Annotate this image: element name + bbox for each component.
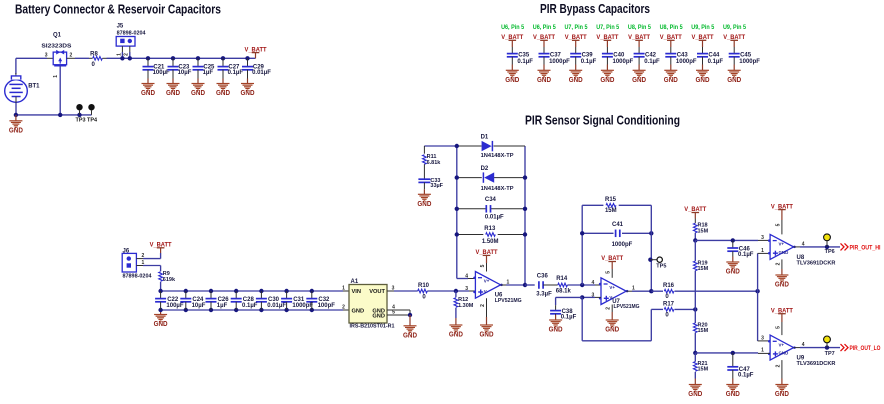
node TP7 junction — [825, 345, 829, 349]
svg-text:1000pF: 1000pF — [549, 59, 570, 65]
wire battery top riser — [15, 58, 17, 74]
svg-text:GND: GND — [664, 77, 678, 84]
svg-text:C44: C44 — [708, 53, 720, 59]
wire C36 to R14 — [543, 284, 558, 286]
svg-text:LPV521MG: LPV521MG — [614, 304, 640, 310]
svg-text:PIR_OUT_LO: PIR_OUT_LO — [850, 345, 881, 352]
power port V_BATT for C42 — [635, 39, 643, 41]
wire A1 pins 4-5 to ground — [409, 310, 411, 315]
svg-text:1.50M: 1.50M — [482, 239, 499, 245]
svg-text:R15: R15 — [605, 197, 617, 203]
svg-text:V_BATT: V_BATT — [150, 242, 172, 249]
capacitor C30 — [259, 289, 263, 293]
svg-text:BT1: BT1 — [28, 83, 40, 89]
ground under battery — [15, 115, 17, 121]
wire feedback top rail — [424, 145, 481, 147]
op-amp U7 LPV521MG — [601, 278, 626, 305]
power port V_BATT (U6) — [483, 254, 491, 256]
svg-text:V+: V+ — [779, 242, 785, 247]
pin 3 of A1 — [387, 290, 394, 292]
wire top capacitor bus — [161, 290, 343, 292]
wire R21 to ground — [694, 372, 696, 379]
svg-text:4: 4 — [592, 280, 595, 286]
capacitor C43 — [665, 53, 676, 55]
power port V_BATT for C43 — [667, 39, 675, 41]
svg-text:87898-0204: 87898-0204 — [123, 274, 153, 280]
svg-text:GND: GND — [696, 77, 710, 84]
capacitor C25 — [196, 56, 200, 60]
wire lower tap to U9 pin 1 — [695, 352, 758, 354]
wire R13 row — [457, 234, 484, 236]
svg-text:87898-0204: 87898-0204 — [117, 30, 147, 36]
capacitor C28 — [234, 289, 238, 293]
svg-text:V_BATT: V_BATT — [501, 34, 523, 41]
wire feedback ladder left vertical — [456, 146, 458, 279]
wire U7 to ground — [611, 305, 613, 313]
ground under A1 — [409, 315, 411, 326]
capacitor C47 0.1uF — [732, 353, 734, 367]
svg-text:2: 2 — [606, 307, 612, 310]
ground under C35 — [511, 65, 513, 71]
ground under C21 — [147, 79, 149, 84]
svg-text:V_BATT: V_BATT — [245, 46, 267, 53]
svg-text:LPV521MG: LPV521MG — [495, 298, 522, 304]
wire R15 row — [582, 204, 603, 206]
capacitor C40 — [602, 53, 613, 55]
svg-text:R10: R10 — [418, 283, 430, 289]
svg-text:U8, Pin 5: U8, Pin 5 — [660, 25, 684, 31]
svg-text:2: 2 — [480, 304, 486, 307]
wire C41 row — [582, 232, 613, 234]
ground under C37 — [543, 65, 545, 71]
svg-text:GND: GND — [191, 90, 205, 97]
svg-text:5: 5 — [480, 264, 486, 267]
wire U9 to ground — [781, 360, 783, 378]
test point TP3 — [79, 110, 81, 115]
svg-text:U6, Pin 5: U6, Pin 5 — [501, 25, 525, 31]
op-amp U6 LPV521MG — [475, 272, 500, 299]
power port V_BATT for C39 — [572, 39, 580, 41]
node D2 right — [523, 175, 527, 179]
ground under C44 — [702, 65, 704, 71]
svg-text:V_BATT: V_BATT — [692, 34, 714, 41]
svg-text:GND: GND — [726, 391, 740, 398]
ground under C38 — [555, 315, 557, 320]
node upper threshold tap — [693, 238, 697, 242]
comparator U8 TLV3691DCKR — [770, 234, 794, 259]
svg-text:VIN: VIN — [352, 289, 361, 295]
wire U7 output to R16 — [651, 290, 663, 292]
svg-text:0.1µF: 0.1µF — [561, 315, 577, 321]
ground under U8 — [781, 269, 783, 275]
ground under R21 — [694, 379, 696, 385]
wire U6 to ground — [486, 298, 488, 317]
node TP3 junction — [77, 113, 81, 117]
svg-text:SI2323DS: SI2323DS — [41, 43, 71, 49]
node battery bottom junction — [14, 113, 18, 117]
ground under C43 — [670, 65, 672, 71]
ground under C39 — [575, 65, 577, 71]
wire upper tap to U8 pin 3 — [695, 239, 758, 241]
capacitor C32 — [310, 289, 314, 293]
svg-text:1000pF: 1000pF — [739, 59, 760, 65]
power port V_BATT (U8) — [778, 209, 786, 211]
svg-text:0.1µF: 0.1µF — [738, 373, 754, 379]
svg-text:GND: GND — [605, 327, 619, 334]
svg-text:1: 1 — [761, 248, 764, 254]
svg-text:GND: GND — [449, 332, 463, 339]
svg-text:5: 5 — [775, 326, 781, 329]
node U7 output junction — [649, 289, 653, 293]
svg-text:V+: V+ — [609, 285, 615, 290]
svg-text:V_BATT: V_BATT — [660, 34, 682, 41]
wire D2 row — [457, 177, 482, 179]
wire R8 to V_BATT bus — [102, 57, 106, 59]
ground under C40 — [606, 65, 608, 71]
wire C34 row — [457, 208, 487, 210]
wire U9 output — [794, 347, 800, 349]
svg-text:GND: GND — [9, 127, 23, 134]
svg-text:GND: GND — [569, 77, 583, 84]
wire J5 pin1 stub — [121, 46, 123, 52]
svg-text:1: 1 — [53, 75, 59, 78]
wire A1 VOUT to R10 — [394, 290, 418, 292]
svg-text:5: 5 — [392, 309, 395, 315]
capacitor C21 — [146, 56, 150, 60]
test point TP6 — [826, 241, 828, 247]
svg-text:TP5: TP5 — [656, 263, 666, 269]
svg-text:0.1µF: 0.1µF — [228, 70, 244, 76]
svg-text:C42: C42 — [645, 53, 657, 59]
capacitor C38 0.1uF — [555, 305, 557, 310]
svg-text:C35: C35 — [518, 53, 530, 59]
wire R10 to U6 pin 3 — [427, 290, 469, 292]
svg-text:V_BATT: V_BATT — [476, 249, 498, 256]
capacitor C27 — [221, 56, 225, 60]
svg-text:1: 1 — [116, 53, 122, 56]
svg-text:100pF: 100pF — [318, 303, 336, 309]
svg-text:GND: GND — [417, 201, 431, 208]
svg-text:GND: GND — [688, 391, 702, 398]
node lower threshold tap — [693, 351, 697, 355]
capacitor C36 3.3uF — [538, 281, 540, 289]
ground under C33 — [423, 189, 425, 194]
ground under C29 — [247, 79, 249, 84]
svg-text:1N4148X-TP: 1N4148X-TP — [481, 153, 514, 159]
svg-text:GND: GND — [632, 77, 646, 84]
port PIR_OUT_LO — [841, 344, 849, 351]
node R13 left — [455, 232, 459, 236]
svg-text:0.1µF: 0.1µF — [242, 303, 258, 309]
svg-text:V_BATT: V_BATT — [723, 34, 745, 41]
svg-text:GND: GND — [154, 321, 168, 328]
svg-text:PIR_OUT_HI: PIR_OUT_HI — [850, 245, 881, 252]
node R12 junction — [454, 289, 458, 293]
resistor R18 15M — [694, 219, 696, 224]
power port V_BATT for C35 — [509, 39, 517, 41]
battery BT1 — [15, 73, 17, 85]
wire R12 to ground — [455, 308, 457, 318]
svg-text:4: 4 — [465, 273, 468, 279]
svg-text:J5: J5 — [117, 24, 124, 30]
svg-text:R17: R17 — [663, 301, 675, 307]
node Q1 pin1 junction — [58, 113, 62, 117]
svg-text:2: 2 — [775, 262, 781, 265]
wire J5 pin2 stub — [129, 46, 131, 52]
wire to C38 — [556, 296, 583, 298]
power port V_BATT for C44 — [699, 39, 707, 41]
svg-text:3.3µF: 3.3µF — [536, 291, 552, 297]
node TP6 junction — [825, 245, 829, 249]
test point TP7 — [826, 343, 828, 348]
svg-text:1: 1 — [342, 286, 345, 292]
power port V_BATT (divider) — [692, 212, 700, 214]
svg-text:TP7: TP7 — [825, 351, 835, 357]
wire R17 to divider — [675, 308, 696, 310]
svg-text:15M: 15M — [698, 266, 709, 272]
wire bottom rail battery section — [16, 114, 92, 116]
ground under C47 — [732, 379, 734, 385]
wire U7 pin3 row — [582, 296, 595, 298]
svg-text:15M: 15M — [698, 228, 709, 234]
svg-text:TP6: TP6 — [825, 249, 835, 255]
svg-text:U9, Pin 5: U9, Pin 5 — [723, 25, 747, 31]
svg-text:1: 1 — [142, 260, 145, 266]
capacitor C42 — [634, 53, 645, 55]
node C41 right — [649, 231, 653, 235]
node C34 right — [523, 207, 527, 211]
svg-text:GND: GND — [216, 90, 230, 97]
svg-text:Q1: Q1 — [53, 33, 62, 39]
ground under C46 — [732, 257, 734, 263]
svg-text:U6, Pin 5: U6, Pin 5 — [533, 25, 557, 31]
svg-text:C34: C34 — [485, 197, 497, 203]
ground at left of gnd bus — [160, 310, 162, 315]
svg-text:619k: 619k — [163, 277, 176, 283]
pin 5 of A1 — [387, 314, 410, 316]
svg-text:0.1µF: 0.1µF — [644, 59, 660, 65]
wire R19 to R20 — [694, 271, 696, 310]
capacitor C24 — [184, 289, 188, 293]
node R16 output junction — [755, 289, 759, 293]
wire U7 pin3 feedback loop — [581, 297, 583, 340]
svg-text:GND: GND — [403, 332, 417, 339]
capacitor C46 0.1uF — [732, 240, 734, 248]
power port V_BATT for C45 — [730, 39, 738, 41]
svg-text:C41: C41 — [612, 222, 624, 228]
wire R11 to C33 — [423, 164, 425, 179]
node R17 right junction — [693, 307, 697, 311]
svg-text:100µF: 100µF — [153, 70, 170, 76]
comparator U9 TLV3691DCKR — [770, 335, 794, 360]
svg-text:C45: C45 — [740, 53, 752, 59]
svg-text:GND: GND — [141, 90, 155, 97]
svg-text:C43: C43 — [677, 53, 689, 59]
svg-text:1.30M: 1.30M — [458, 303, 474, 309]
node U7 pin3 junction — [580, 295, 584, 299]
ground under U7 — [611, 312, 613, 320]
capacitor C44 — [697, 53, 708, 55]
svg-text:GND: GND — [600, 77, 614, 84]
svg-text:GND: GND — [480, 332, 494, 339]
svg-text:GND: GND — [352, 308, 365, 314]
svg-text:GND: GND — [779, 351, 789, 356]
svg-text:GND: GND — [775, 282, 789, 289]
capacitor C35 — [507, 53, 518, 55]
svg-text:TP3 TP4: TP3 TP4 — [76, 117, 98, 123]
svg-text:6.81k: 6.81k — [427, 160, 442, 166]
capacitor C23 — [171, 56, 175, 60]
svg-text:15M: 15M — [605, 208, 617, 214]
svg-text:V_BATT: V_BATT — [601, 255, 623, 262]
ground under C42 — [638, 65, 640, 71]
svg-text:V+: V+ — [484, 279, 490, 284]
svg-text:TLV3691DCKR: TLV3691DCKR — [797, 260, 836, 266]
capacitor C33 33uF — [418, 178, 430, 180]
wire Q1 pin1 down — [59, 66, 61, 115]
svg-text:GND: GND — [775, 391, 789, 398]
svg-text:1µF: 1µF — [217, 303, 228, 309]
wire Q1 to R8 — [67, 57, 75, 59]
svg-text:V_BATT: V_BATT — [771, 203, 793, 210]
svg-text:10µF: 10µF — [178, 70, 192, 76]
svg-text:2: 2 — [142, 253, 145, 259]
svg-text:R14: R14 — [556, 276, 568, 282]
svg-text:Battery Connector & Reservoir: Battery Connector & Reservoir Capacitors — [15, 2, 221, 17]
port PIR_OUT_HI — [841, 243, 849, 250]
svg-text:U9, Pin 5: U9, Pin 5 — [691, 25, 715, 31]
resistor R20 15M — [694, 309, 696, 323]
node ladder top left — [455, 144, 459, 148]
node U7 pin4 junction — [580, 283, 584, 287]
wire U6 output — [501, 284, 506, 286]
svg-text:GND: GND — [727, 77, 741, 84]
ground under U9 — [781, 379, 783, 385]
wire U6 pin4 to feedback ladder — [468, 278, 475, 280]
svg-text:0.1µF: 0.1µF — [708, 59, 724, 65]
svg-text:V_BATT: V_BATT — [628, 34, 650, 41]
wire signal to U9 pin 3 — [757, 291, 759, 341]
capacitor C34 0.01uF — [485, 205, 487, 213]
svg-text:U8, Pin 5: U8, Pin 5 — [628, 25, 652, 31]
svg-text:V_BATT: V_BATT — [533, 34, 555, 41]
wire bus battery to Q1 — [16, 57, 47, 59]
wire signal to U8 pin 1 — [757, 253, 759, 291]
svg-text:C37: C37 — [550, 53, 562, 59]
svg-text:PIR Bypass Capacitors: PIR Bypass Capacitors — [540, 1, 650, 16]
wire U8 to ground — [781, 259, 783, 269]
wire J6 pin2 to V_BATT — [136, 258, 143, 260]
svg-text:GND: GND — [166, 90, 180, 97]
power port V_BATT for C37 — [540, 39, 548, 41]
svg-text:VOUT: VOUT — [369, 289, 385, 295]
svg-text:D1: D1 — [481, 134, 489, 140]
ground under R12 — [455, 318, 457, 325]
node D2 left — [455, 175, 459, 179]
wire U6 output to C36 — [525, 284, 535, 286]
svg-text:5: 5 — [775, 223, 781, 226]
svg-text:3: 3 — [45, 52, 48, 58]
wire U7 feedback left vertical — [581, 205, 583, 285]
node U6 output junction — [523, 283, 527, 287]
capacitor C39 — [570, 53, 581, 55]
resistor R21 15M — [694, 353, 696, 362]
svg-text:C36: C36 — [537, 273, 549, 279]
svg-text:IRS-B210ST01-R1: IRS-B210ST01-R1 — [350, 324, 395, 330]
svg-text:2: 2 — [70, 52, 73, 58]
wire bottom gnd bus — [161, 309, 343, 311]
svg-text:0.1µF: 0.1µF — [581, 59, 597, 65]
svg-text:2: 2 — [775, 364, 781, 367]
power port V_BATT (battery section) — [252, 52, 260, 54]
svg-text:1000pF: 1000pF — [676, 59, 697, 65]
wire U8 output — [794, 246, 800, 248]
resistor R11 6.81k — [423, 146, 425, 154]
svg-text:GND: GND — [372, 314, 385, 320]
svg-text:V_BATT: V_BATT — [684, 206, 706, 213]
capacitor C37 — [539, 53, 550, 55]
svg-text:15M: 15M — [698, 328, 709, 334]
ground under C45 — [733, 65, 735, 71]
svg-text:0.01µF: 0.01µF — [485, 215, 504, 221]
ground under C27 — [222, 79, 224, 84]
svg-text:0.01µF: 0.01µF — [267, 303, 286, 309]
wire R9 to cap bus — [160, 282, 162, 291]
svg-text:0.01µF: 0.01µF — [252, 70, 271, 76]
svg-text:D2: D2 — [481, 166, 489, 172]
ground under C23 — [172, 79, 174, 84]
resistor R9 619k — [159, 272, 163, 282]
power port V_BATT (J6) — [157, 247, 165, 249]
svg-text:GND: GND — [537, 77, 551, 84]
svg-text:10µF: 10µF — [192, 303, 206, 309]
capacitor C31 — [284, 289, 288, 293]
power port V_BATT (U7) — [608, 261, 616, 263]
ground under U6 — [486, 317, 488, 325]
svg-text:1N4148X-TP: 1N4148X-TP — [481, 186, 514, 192]
svg-text:TLV3691DCKR: TLV3691DCKR — [797, 361, 836, 367]
svg-text:1: 1 — [761, 348, 764, 354]
test point TP4 — [91, 110, 93, 115]
svg-text:3: 3 — [761, 336, 764, 342]
wire feedback ladder right vertical — [524, 146, 526, 285]
svg-text:0.1µF: 0.1µF — [738, 252, 754, 258]
svg-text:3: 3 — [465, 286, 468, 292]
svg-text:2: 2 — [124, 53, 130, 56]
power port V_BATT for C40 — [604, 39, 612, 41]
svg-text:2: 2 — [342, 305, 345, 311]
node C46 junction — [731, 238, 735, 242]
power port V_BATT (U9) — [778, 313, 786, 315]
svg-text:GND: GND — [726, 269, 740, 276]
wire battery bottom stem — [15, 97, 17, 104]
test point TP5 — [650, 259, 657, 261]
svg-text:100µF: 100µF — [166, 303, 183, 309]
wire U7 output — [626, 290, 632, 292]
resistor R19 15M — [694, 240, 696, 261]
ground under C25 — [197, 79, 199, 84]
pin 4 of A1 — [387, 309, 410, 311]
svg-text:GND: GND — [505, 77, 519, 84]
resistor R12 1.30M — [455, 291, 457, 297]
svg-text:1000pF: 1000pF — [612, 242, 633, 248]
node C47 junction — [731, 351, 735, 355]
svg-text:GND: GND — [549, 327, 563, 334]
node C41 left — [580, 231, 584, 235]
svg-text:V+: V+ — [779, 342, 785, 347]
svg-text:R13: R13 — [484, 226, 496, 232]
svg-text:3: 3 — [761, 235, 764, 241]
